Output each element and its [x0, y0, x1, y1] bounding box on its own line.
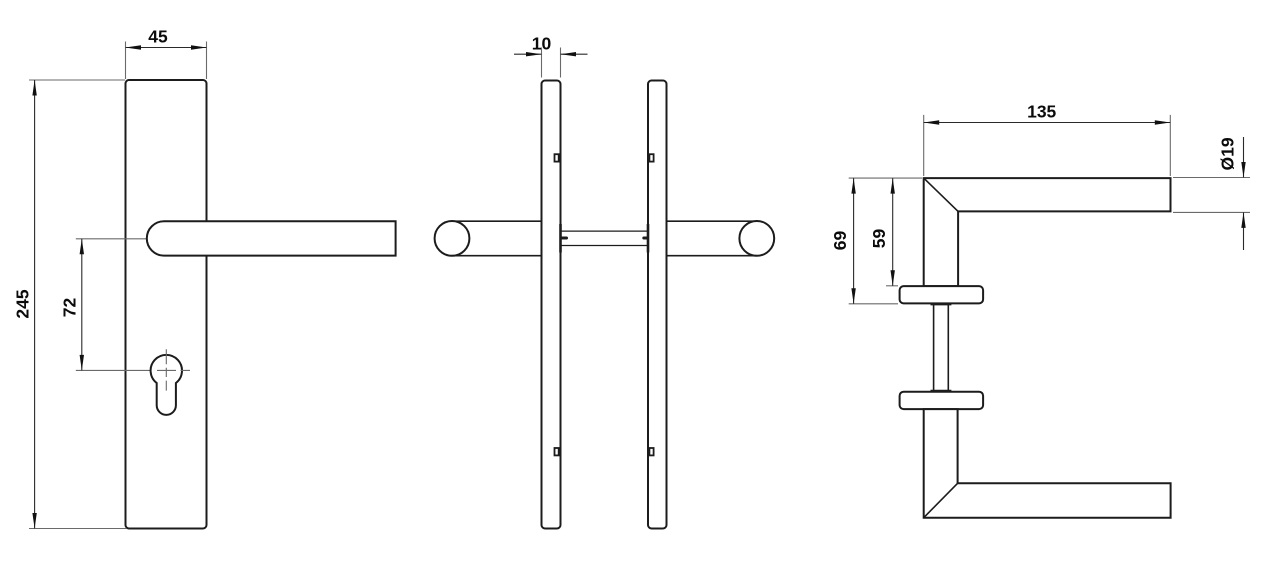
cylinder keyhole	[151, 355, 182, 415]
svg-text:10: 10	[532, 34, 552, 54]
dim 72 arrow bottom	[80, 355, 84, 371]
dim 45 extension lines	[125, 42, 127, 80]
spindle bottom line	[561, 245, 649, 247]
dim 10 right leader	[561, 53, 588, 55]
dim 59 arrow top	[891, 178, 895, 194]
dim 72 extension line at lever axis	[76, 238, 162, 240]
dim 69 bottom extension	[849, 303, 898, 305]
top lever neck crease	[924, 178, 958, 211]
dim 245 line	[34, 80, 36, 529]
top rosette	[900, 286, 984, 303]
dim 10 arrow left	[526, 52, 542, 56]
dim d19 extension bottom	[1173, 211, 1250, 213]
dim 245 arrow bottom	[32, 513, 36, 529]
dim 245 extension top	[29, 79, 125, 81]
left grip bottom line	[452, 255, 542, 257]
dim d19 arrow top	[1241, 162, 1245, 178]
keyhole centerline horizontal	[157, 369, 190, 371]
spindle clip left	[562, 237, 567, 240]
spindle shaft	[934, 303, 949, 391]
svg-text:Ø19: Ø19	[1218, 137, 1238, 170]
dim 72 arrow top	[80, 239, 84, 255]
dim d19 arrow bottom	[1241, 212, 1245, 228]
right grip top line	[667, 220, 757, 222]
plate edge reinforcement left	[559, 224, 562, 253]
dim 45 line	[126, 47, 207, 49]
dim 135 arrow left	[924, 120, 940, 124]
bottom lever silhouette	[924, 409, 1171, 518]
svg-text:72: 72	[60, 298, 80, 318]
dim 69 arrow bottom	[851, 288, 855, 304]
dim 69/59 top extension	[849, 177, 922, 179]
svg-text:245: 245	[13, 289, 33, 318]
screw slot bottom left	[555, 448, 559, 455]
dim 10 extension lines	[541, 48, 543, 78]
dim 45 arrow right	[191, 45, 207, 49]
dim d19 lower leader	[1243, 212, 1245, 250]
dim 135 extension left	[923, 115, 925, 176]
dim 59 arrow bottom	[891, 270, 895, 286]
dim 59 bottom extension	[886, 285, 898, 287]
plate edge reinforcement right	[647, 224, 650, 253]
top lever silhouette	[924, 178, 1171, 286]
right plate side	[648, 81, 667, 529]
screw slot top right	[649, 154, 653, 161]
dim 72 extension at keyhole axis	[76, 369, 153, 371]
bottom rosette	[900, 392, 984, 409]
dim 69 line	[853, 178, 855, 304]
screw slot top left	[555, 154, 559, 161]
svg-text:45: 45	[148, 27, 168, 47]
dim 245 arrow top	[32, 80, 36, 96]
dim 45 arrow left	[126, 45, 142, 49]
left grip top line	[452, 220, 542, 222]
left plate side	[542, 81, 561, 529]
svg-text:135: 135	[1027, 102, 1056, 122]
lever front view	[147, 221, 396, 255]
dim 10 left leader	[514, 53, 542, 55]
spindle joint top	[931, 303, 952, 305]
dim 135 extension right	[1169, 115, 1171, 176]
dim d19 upper leader	[1243, 137, 1245, 178]
dim 10 arrow right	[561, 52, 577, 56]
left grip circle	[435, 221, 470, 256]
spindle clip right	[644, 237, 647, 240]
right grip bottom line	[667, 255, 757, 257]
keyhole centerline vertical	[165, 349, 167, 390]
spindle joint bottom	[931, 390, 952, 392]
spindle top line	[561, 230, 649, 232]
backplate	[126, 80, 207, 529]
screw slot bottom right	[649, 448, 653, 455]
dim 135 arrow right	[1155, 120, 1171, 124]
dim 59 line	[892, 178, 894, 286]
svg-text:59: 59	[869, 229, 889, 249]
dim 72 line	[81, 239, 83, 371]
dim 245 extension bottom	[29, 528, 127, 530]
right grip circle	[739, 221, 774, 256]
bottom lever neck crease	[924, 483, 958, 517]
dim d19 extension top	[1173, 177, 1250, 179]
svg-text:69: 69	[830, 231, 850, 251]
dim 69 arrow top	[851, 178, 855, 194]
dim 135 line	[924, 122, 1171, 124]
